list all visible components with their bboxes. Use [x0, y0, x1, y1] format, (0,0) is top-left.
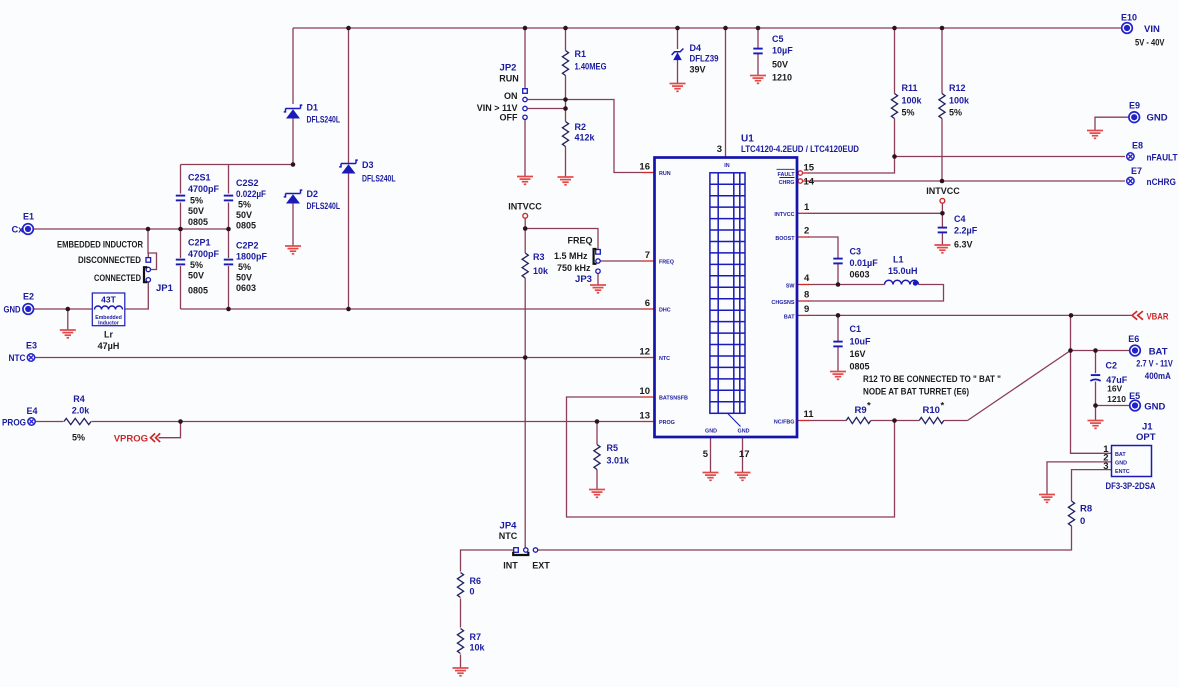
svg-text:0805: 0805	[850, 362, 870, 372]
C3 labels	[850, 247, 879, 280]
wire INTVCC mid stem	[524, 218, 526, 229]
U1 pin names inside	[659, 163, 795, 435]
svg-text:4700pF: 4700pF	[188, 184, 220, 194]
wire nFAULT net	[808, 157, 1125, 174]
wire C2 ground stem	[1095, 406, 1097, 421]
capacitor C5	[753, 48, 762, 50]
svg-text:JP1: JP1	[156, 283, 174, 294]
wire VIN top rail	[293, 27, 1122, 29]
svg-text:BAT: BAT	[1149, 347, 1168, 358]
svg-text:16V: 16V	[1107, 384, 1122, 394]
svg-text:16: 16	[639, 162, 650, 173]
C2 labels	[1106, 361, 1128, 405]
R3 labels	[533, 252, 549, 276]
svg-text:L1: L1	[893, 255, 904, 265]
svg-text:NC/FBG: NC/FBG	[774, 420, 795, 426]
svg-text:47µH: 47µH	[98, 341, 120, 351]
ground J1 pin2	[1039, 495, 1055, 503]
R1 labels	[575, 49, 607, 72]
wire R3 branch	[524, 229, 526, 358]
resistor R1	[562, 51, 568, 76]
svg-text:INTVCC: INTVCC	[926, 186, 960, 196]
svg-text:OFF: OFF	[500, 113, 518, 123]
svg-text:50V: 50V	[236, 210, 252, 220]
wire SW to L1	[808, 284, 885, 286]
jumper JP1 square	[146, 258, 151, 263]
svg-text:E4: E4	[26, 406, 37, 416]
svg-text:E9: E9	[1129, 101, 1140, 111]
svg-text:11: 11	[804, 409, 815, 420]
resistor R7	[457, 629, 463, 654]
R8 labels	[1080, 504, 1092, 528]
svg-text:10uF: 10uF	[850, 337, 872, 347]
turret E2	[23, 304, 34, 315]
svg-text:E1: E1	[23, 212, 34, 222]
svg-text:BAT: BAT	[1115, 452, 1126, 458]
R12 labels	[949, 83, 970, 118]
wire cap ladder right vertical	[228, 165, 230, 310]
wire D3 branch vertical	[348, 28, 350, 309]
svg-text:NTC: NTC	[499, 531, 518, 541]
J1 pin names	[1115, 452, 1130, 475]
E5 labels	[1129, 391, 1165, 413]
resistor R3	[522, 253, 528, 278]
svg-text:0: 0	[470, 587, 475, 597]
wire C1 branch	[837, 315, 839, 371]
inductor Lr embedded box	[92, 293, 125, 326]
svg-text:R6: R6	[470, 576, 482, 586]
wire R7 to ground	[460, 655, 462, 669]
svg-text:NTC: NTC	[659, 356, 670, 362]
resistor R10	[919, 417, 944, 423]
svg-text:43T: 43T	[101, 295, 116, 305]
wire cap ladder left vertical	[180, 165, 182, 310]
svg-text:JP3: JP3	[575, 274, 592, 285]
svg-text:R4: R4	[73, 394, 85, 404]
wire JP1 square stem	[147, 253, 149, 257]
svg-text:12: 12	[639, 347, 650, 358]
wire JP4 INT side	[461, 550, 514, 572]
capacitor C2	[1091, 374, 1100, 376]
svg-text:17: 17	[739, 449, 750, 460]
svg-text:5%: 5%	[190, 196, 203, 206]
note R12 connection	[863, 374, 1001, 397]
wire NC/FBG pin11 net with R9 R10	[808, 420, 968, 422]
svg-text:D3: D3	[362, 160, 374, 170]
wire INTVCC to JP3	[525, 229, 598, 250]
svg-text:3: 3	[1103, 461, 1108, 472]
svg-text:400mA: 400mA	[1145, 371, 1171, 381]
svg-text:E3: E3	[26, 341, 37, 351]
svg-text:R12 TO BE CONNECTED TO " BAT ": R12 TO BE CONNECTED TO " BAT "	[863, 374, 1001, 384]
ground C2	[1088, 421, 1104, 429]
svg-text:10k: 10k	[470, 643, 486, 653]
svg-text:100k: 100k	[902, 96, 923, 106]
svg-text:nCHRG: nCHRG	[1147, 177, 1177, 188]
svg-text:GND: GND	[738, 429, 750, 435]
svg-text:2.2µF: 2.2µF	[954, 226, 978, 236]
turret E4	[28, 418, 35, 425]
J1 labels	[1106, 422, 1156, 492]
pin 15 inverted circle	[798, 171, 802, 175]
svg-text:5%: 5%	[238, 262, 251, 272]
R6 labels	[470, 576, 482, 597]
svg-text:750 kHz: 750 kHz	[557, 263, 591, 273]
ground C4	[934, 245, 950, 253]
svg-text:GND: GND	[1115, 461, 1127, 467]
svg-text:5V - 40V: 5V - 40V	[1135, 38, 1165, 48]
svg-text:3: 3	[717, 144, 722, 155]
ground R5	[589, 490, 605, 498]
U1 pin numbers	[639, 144, 814, 460]
svg-text:Inductor: Inductor	[98, 321, 119, 327]
svg-text:GND: GND	[1147, 113, 1168, 124]
jumper JP4 square	[514, 548, 519, 553]
wire C2 branch	[1095, 351, 1097, 406]
svg-text:IN: IN	[724, 163, 729, 169]
svg-text:CHRG: CHRG	[779, 180, 795, 186]
svg-text:1.40MEG: 1.40MEG	[575, 62, 607, 72]
jumper JP2 square	[523, 89, 528, 94]
wire JP1 to Lr	[125, 282, 148, 309]
wire C4 branch	[941, 213, 943, 245]
svg-text:RUN: RUN	[659, 171, 671, 177]
svg-text:5%: 5%	[72, 433, 85, 443]
R7 labels	[470, 632, 486, 653]
R10 labels	[923, 401, 945, 417]
ground D2	[285, 246, 301, 254]
resistor R6	[457, 573, 463, 598]
U1 hatch gnd diagonal	[728, 413, 741, 426]
svg-text:ON: ON	[504, 91, 518, 101]
svg-text:R2: R2	[575, 122, 587, 132]
JP4 labels	[499, 521, 550, 571]
svg-text:GND: GND	[1144, 402, 1165, 413]
svg-text:C1: C1	[850, 324, 862, 334]
ground JP2 OFF	[517, 177, 533, 185]
svg-text:5%: 5%	[902, 108, 915, 118]
svg-text:R5: R5	[607, 443, 619, 453]
ground C1	[830, 372, 846, 380]
wire INTVCC right stem	[941, 203, 943, 213]
jumper JP2 circles	[523, 97, 527, 119]
R11 labels	[902, 83, 923, 118]
svg-text:D2: D2	[307, 189, 319, 199]
diode D2	[284, 190, 303, 197]
svg-text:R7: R7	[470, 632, 482, 642]
power flag INTVCC mid	[523, 213, 528, 218]
D3 labels	[362, 160, 396, 184]
svg-text:R8: R8	[1080, 504, 1092, 515]
wire R8 to JP4 EXT	[538, 526, 1072, 550]
svg-text:R10: R10	[923, 405, 940, 416]
svg-text:50V: 50V	[188, 206, 204, 216]
svg-text:0.01µF: 0.01µF	[850, 258, 879, 268]
wire JP2 feed	[524, 28, 526, 89]
diode D3	[339, 160, 358, 167]
svg-text:10k: 10k	[533, 266, 549, 276]
C4 labels	[954, 214, 978, 250]
ground R7	[453, 668, 469, 676]
svg-text:PROG: PROG	[2, 418, 26, 429]
svg-text:0603: 0603	[236, 283, 256, 293]
op-amp U1 LTC4120 body	[655, 158, 798, 438]
capacitor C2S1	[176, 195, 185, 197]
jumper JP3 circles	[596, 259, 600, 274]
Lr box labels	[95, 295, 122, 327]
wire D1-D2 branch vertical	[292, 28, 294, 246]
turret E3	[27, 354, 34, 361]
E10 labels	[1121, 13, 1165, 48]
wire E1 Cx net	[34, 228, 229, 230]
svg-text:R12: R12	[949, 83, 966, 93]
ground C5	[750, 76, 766, 84]
svg-text:INT: INT	[503, 561, 518, 571]
svg-text:10: 10	[639, 386, 650, 397]
ground D4	[670, 84, 686, 92]
wire nCHRG net	[808, 180, 1125, 182]
svg-text:*: *	[941, 401, 945, 412]
wire J1 pin3 to R8	[1072, 470, 1112, 501]
svg-text:Cx: Cx	[12, 225, 25, 236]
U1 designator labels	[741, 134, 859, 156]
svg-text:50V: 50V	[188, 271, 204, 281]
svg-text:RUN: RUN	[499, 74, 519, 84]
svg-text:PROG: PROG	[659, 420, 675, 426]
svg-text:DFLS240L: DFLS240L	[362, 174, 396, 184]
svg-text:5%: 5%	[190, 260, 203, 270]
resistor R11	[891, 94, 897, 119]
capacitor C1	[833, 341, 842, 343]
svg-text:0.022µF: 0.022µF	[236, 189, 266, 199]
svg-text:100k: 100k	[949, 96, 970, 106]
power flag INTVCC right	[940, 198, 945, 203]
svg-text:DHC: DHC	[659, 308, 671, 314]
connector J1 box	[1112, 446, 1152, 477]
svg-text:C2: C2	[1106, 361, 1118, 371]
pin 14 inverted circle	[798, 179, 802, 183]
svg-text:VIN > 11V: VIN > 11V	[477, 103, 518, 113]
D1 labels	[307, 103, 341, 125]
capacitor C4	[938, 227, 947, 229]
net flag VPROG	[151, 433, 161, 442]
svg-text:50V: 50V	[236, 273, 252, 283]
svg-text:EXT: EXT	[532, 561, 550, 571]
svg-text:13: 13	[639, 411, 650, 422]
ground U1 pin17	[735, 473, 751, 481]
svg-text:5%: 5%	[949, 108, 962, 118]
wire D4 branch	[677, 28, 679, 84]
JP2 labels	[477, 63, 519, 123]
turret E10	[1122, 23, 1133, 34]
wire JP2 VIN>11V to divider	[527, 108, 565, 110]
svg-text:4700pF: 4700pF	[188, 249, 220, 259]
wire IN pin3	[725, 28, 727, 158]
svg-text:JP4: JP4	[500, 521, 518, 532]
svg-text:0805: 0805	[188, 217, 208, 227]
svg-text:7: 7	[645, 250, 650, 261]
wire R6 to R7	[460, 599, 462, 628]
svg-text:R11: R11	[902, 83, 918, 93]
J1 pin numbers	[1103, 444, 1109, 472]
JP1 labels	[57, 239, 174, 294]
wire JP2 ON to RUN	[527, 100, 642, 173]
wire R1 branch	[565, 28, 567, 109]
ground U1 pin5	[703, 473, 719, 481]
E6 labels	[1128, 334, 1173, 381]
jumper JP3 square	[596, 250, 601, 255]
svg-text:DF3-3P-2DSA: DF3-3P-2DSA	[1106, 481, 1156, 491]
svg-text:SW: SW	[786, 284, 796, 290]
jumper JP3 shunt bracket	[594, 249, 597, 264]
svg-text:50V: 50V	[772, 60, 788, 70]
resistor R5	[594, 445, 600, 470]
wire JP2 OFF to ground	[524, 120, 526, 177]
wire diagonal R10 to BAT node	[968, 351, 1071, 421]
svg-text:C3: C3	[850, 247, 862, 257]
svg-text:C2P2: C2P2	[236, 241, 259, 251]
R5 labels	[607, 443, 631, 466]
wire cap ladder top	[181, 164, 294, 166]
turret E1	[23, 224, 34, 235]
svg-text:14: 14	[804, 177, 815, 188]
svg-text:EMBEDDED INDUCTOR: EMBEDDED INDUCTOR	[57, 239, 143, 249]
svg-text:E8: E8	[1132, 141, 1143, 151]
JP3 labels	[554, 236, 593, 286]
svg-text:1210: 1210	[1107, 394, 1126, 404]
wire BATSNSFB pin10 net	[567, 397, 895, 517]
L1 labels	[888, 255, 918, 277]
wire BAT node down to J1 pin1	[1071, 351, 1112, 454]
svg-text:C5: C5	[772, 34, 784, 44]
wire E9 gnd link	[1095, 117, 1129, 130]
ground R2	[558, 177, 574, 185]
wire R3 bottom to JP4	[524, 358, 526, 548]
R4 labels	[72, 394, 91, 443]
svg-text:DFLZ39: DFLZ39	[690, 54, 719, 64]
svg-text:1210: 1210	[772, 73, 792, 83]
svg-text:6.3V: 6.3V	[954, 240, 973, 250]
svg-text:1: 1	[804, 202, 810, 213]
wire JP3 to FREQ pin7	[600, 260, 642, 262]
svg-text:R1: R1	[575, 49, 587, 59]
svg-text:FREQ: FREQ	[659, 260, 674, 266]
svg-text:DFLS240L: DFLS240L	[307, 115, 341, 125]
wire NTC net	[35, 357, 642, 359]
svg-text:U1: U1	[741, 134, 754, 145]
C2S1 labels	[188, 173, 220, 228]
Lr value labels	[98, 330, 120, 352]
svg-text:INTVCC: INTVCC	[508, 202, 542, 212]
pin stubs U1 pins 15 14	[803, 173, 809, 181]
jumper JP1 circles	[146, 267, 150, 282]
svg-text:1.5 MHz: 1.5 MHz	[554, 251, 588, 261]
pin stubs U1 right	[797, 213, 809, 420]
resistor R8	[1068, 501, 1074, 526]
wire R11 branch	[894, 28, 896, 157]
svg-text:OPT: OPT	[1136, 432, 1156, 443]
turret E6	[1130, 345, 1141, 356]
wire JP3 bottom to ground	[597, 273, 599, 285]
ground JP3	[590, 285, 606, 293]
svg-text:D1: D1	[307, 103, 319, 113]
wire C2 to E5 GND	[1096, 405, 1130, 407]
C2P2 labels	[236, 241, 268, 294]
svg-text:BOOST: BOOST	[775, 236, 795, 242]
U1 internal hatch block	[710, 173, 745, 413]
turret E4 labels	[2, 406, 38, 429]
jumper JP4 shunt bracket	[513, 552, 528, 555]
wire BAT node to E6	[1071, 350, 1130, 352]
C1 labels	[850, 324, 872, 372]
svg-text:E6: E6	[1128, 334, 1139, 344]
svg-text:412k: 412k	[575, 133, 596, 143]
E8 labels	[1132, 141, 1178, 164]
wire BAT net to VBAR	[808, 314, 1131, 316]
R9 labels	[855, 401, 872, 417]
svg-text:DFLS240L: DFLS240L	[307, 201, 341, 211]
svg-text:39V: 39V	[690, 65, 706, 75]
wire DHC bus	[181, 308, 643, 310]
E7 labels	[1131, 166, 1176, 188]
svg-text:E2: E2	[23, 292, 34, 302]
svg-text:CHGSNS: CHGSNS	[771, 300, 794, 306]
junction dots	[346, 26, 351, 31]
svg-text:15.0uH: 15.0uH	[888, 266, 918, 276]
svg-text:3.01k: 3.01k	[607, 456, 631, 466]
jumper JP1 shunt bracket	[144, 267, 147, 282]
svg-text:2.7 V - 11V: 2.7 V - 11V	[1136, 359, 1173, 369]
svg-text:2: 2	[804, 226, 809, 237]
turret E7	[1127, 177, 1134, 184]
svg-text:2.0k: 2.0k	[72, 406, 91, 416]
svg-text:0603: 0603	[850, 270, 870, 280]
turret E3 labels	[9, 341, 38, 365]
svg-text:nFAULT: nFAULT	[1147, 153, 1178, 164]
svg-text:E10: E10	[1121, 13, 1137, 23]
R2 labels	[575, 122, 596, 143]
svg-text:C2S2: C2S2	[236, 178, 259, 188]
turret E5	[1130, 400, 1141, 411]
svg-text:4: 4	[804, 273, 810, 284]
svg-text:R9: R9	[855, 405, 867, 416]
resistor R4	[64, 418, 91, 424]
E9 labels	[1129, 101, 1168, 124]
wire R2 to ground	[565, 109, 567, 178]
jumper JP4 circles	[524, 548, 538, 552]
diode D1	[284, 105, 303, 112]
C2S2 labels	[236, 178, 266, 231]
svg-text:VPROG: VPROG	[114, 434, 148, 445]
capacitor C2S2	[224, 195, 233, 197]
svg-text:E7: E7	[1131, 166, 1142, 176]
svg-text:C4: C4	[954, 214, 966, 224]
svg-text:J1: J1	[1142, 422, 1153, 433]
svg-text:8: 8	[804, 290, 809, 301]
svg-text:VBAR: VBAR	[1147, 312, 1169, 323]
svg-text:DISCONNECTED: DISCONNECTED	[78, 255, 141, 265]
wire C5 branch	[757, 28, 759, 76]
C2P1 labels	[188, 238, 220, 296]
wire IC gnd stems	[711, 437, 743, 473]
wire JP1 hook from Cx net	[148, 229, 157, 270]
resistor R9	[846, 417, 871, 423]
capacitor C2P1	[176, 259, 185, 261]
svg-text:NODE AT BAT TURRET (E6): NODE AT BAT TURRET (E6)	[863, 387, 969, 397]
wire J1 pin2 to ground	[1047, 462, 1112, 495]
svg-text:1800pF: 1800pF	[236, 252, 268, 262]
svg-text:C2P1: C2P1	[188, 238, 211, 248]
